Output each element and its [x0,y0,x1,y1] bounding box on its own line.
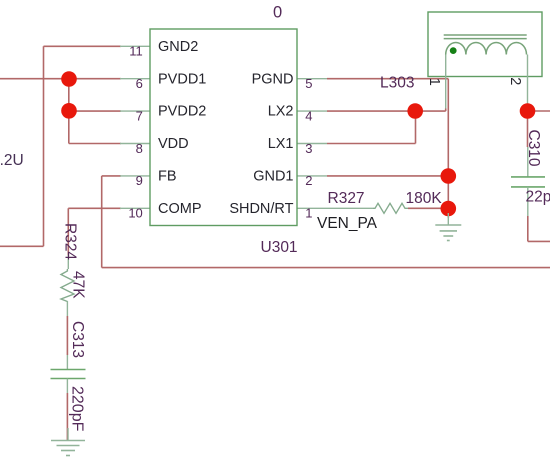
wire FB net [102,176,550,268]
svg-text:47K: 47K [70,271,87,299]
transformer pin 2 leg [527,55,529,112]
wire C310 down and right [528,216,550,241]
pin stub 6 [120,78,150,80]
svg-text:180K: 180K [406,190,443,207]
svg-text:LX2: LX2 [268,104,294,120]
svg-text:R327: R327 [328,190,365,207]
svg-text:4: 4 [305,108,312,123]
pin stub 10 [120,207,150,209]
pin stub 3 [297,143,327,145]
wire PVDD1-PVDD2-VDD tie [69,79,121,144]
svg-text:PVDD2: PVDD2 [158,104,206,120]
svg-text:U301: U301 [261,239,298,256]
op-amp U301 body [150,29,297,226]
svg-text:PVDD1: PVDD1 [158,71,206,87]
junction dot GND1 [441,168,457,184]
svg-text:GND2: GND2 [158,39,198,55]
transformer core lines [444,35,527,39]
junction dot PVDD2 [61,103,77,119]
wire exit left at bottom [0,245,44,247]
svg-text:PGND: PGND [252,71,294,87]
svg-text:GND1: GND1 [253,169,293,185]
pin stub 11 [120,45,150,47]
svg-text:8: 8 [136,141,143,156]
capacitor C313 [51,355,86,393]
wire C313 to ground [66,393,68,441]
svg-text:6: 6 [136,76,143,91]
pin stub 4 [297,110,327,112]
pin stub 8 [120,143,150,145]
wire R327 to column [408,207,448,209]
ground G1 [51,428,85,456]
svg-text:10: 10 [128,206,142,221]
svg-text:0: 0 [273,4,282,22]
wire vertical to pin 11 [44,46,122,246]
pin stub 7 [120,110,150,112]
svg-text:3: 3 [305,141,312,156]
capacitor C310 [511,147,545,216]
wire pin2 to C310 [527,111,529,147]
svg-text:COMP: COMP [158,201,202,217]
svg-text:1: 1 [305,206,312,221]
svg-text:7: 7 [136,108,143,123]
pin stub 2 [297,175,327,177]
junction dot SHDN [441,201,457,217]
svg-text:VDD: VDD [158,136,189,152]
resistor R327 [373,203,408,213]
wire exit right from pin2 node [528,110,550,112]
svg-text:R324: R324 [62,223,79,260]
svg-text:LX1: LX1 [268,136,294,152]
svg-text:2: 2 [305,173,312,188]
junction dot LX [407,103,423,119]
pin stub 1 [297,207,373,209]
resistor R324 bottom pin [66,301,68,316]
transformer L303 box [428,12,542,77]
inductor L303 coil [446,42,527,54]
wire GND1 to column [327,175,448,177]
polarity dot [450,47,457,54]
resistor R324 top pin [67,255,69,269]
svg-text:VEN_PA: VEN_PA [317,215,378,232]
svg-text:FB: FB [158,169,177,185]
svg-text:2: 2 [507,77,523,85]
wire COMP net [68,208,121,256]
pin stub 5 [297,78,327,80]
pin stub 9 [120,175,150,177]
wire R324 to C313 [66,316,68,355]
svg-text:220pF: 220pF [69,386,86,432]
transformer pin 1 leg [445,55,447,109]
svg-text:C310: C310 [525,130,542,167]
svg-text:SHDN/RT: SHDN/RT [229,201,293,217]
svg-text:L303: L303 [380,74,414,91]
svg-text:1: 1 [426,78,442,86]
ground G2 [435,213,461,241]
svg-text:11: 11 [129,44,143,59]
svg-text:9: 9 [136,173,143,188]
junction dot C310 [520,103,536,119]
wire PGND to ground column [327,79,448,218]
wire net PVDD left entry [0,78,121,80]
wire LX2 to inductor [327,109,446,112]
svg-text:C313: C313 [69,321,86,358]
svg-text:5: 5 [305,76,312,91]
wire LX1 riser [327,111,416,143]
resistor R324 [61,269,74,302]
svg-text:2.2U: 2.2U [0,152,24,169]
svg-text:22pF: 22pF [526,189,550,206]
junction dot PVDD1 [61,71,77,87]
